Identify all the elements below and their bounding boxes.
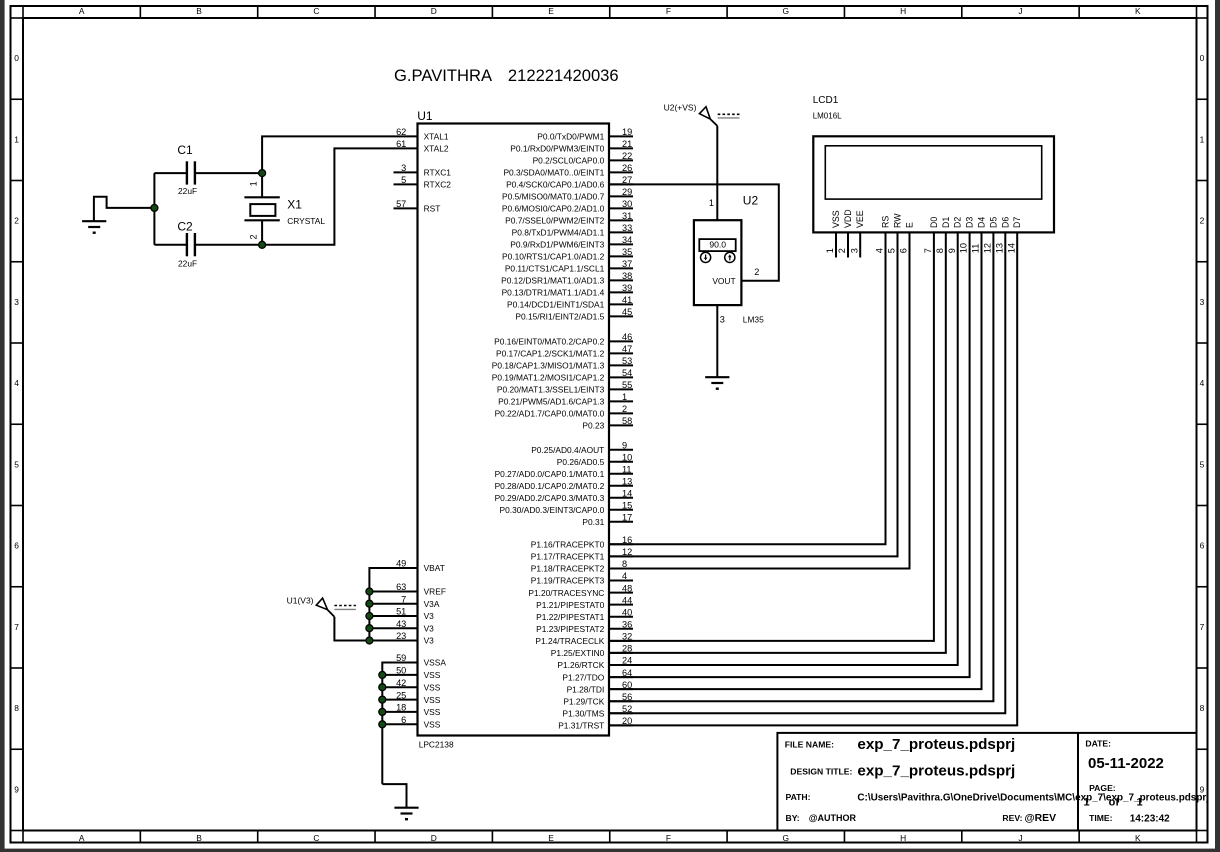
pin P0.8/TxD1/PWM4/AD1.1 (33) of U1 <box>512 223 633 238</box>
pin P0.15/RI1/EINT2/AD1.5 (45) of U1 <box>515 307 633 322</box>
svg-text:K: K <box>1135 833 1141 843</box>
svg-text:1: 1 <box>825 248 835 253</box>
svg-text:CRYSTAL: CRYSTAL <box>287 216 325 226</box>
pin P0.1/RxD0/PWM3/EINT0 (21) of U1 <box>510 139 633 154</box>
pin D5 (12) of LCD1 <box>983 217 999 254</box>
svg-text:P0.25/AD0.4/AOUT: P0.25/AD0.4/AOUT <box>531 445 604 455</box>
pin RW (5) of LCD1 <box>887 213 903 253</box>
pin number 1 of X1 <box>248 181 258 186</box>
svg-text:3: 3 <box>849 248 859 253</box>
wire XTAL1 net (U1 pin 62 to crystal pin 1) <box>262 136 417 173</box>
svg-text:9: 9 <box>14 784 19 794</box>
label LPC2138 part value <box>419 739 454 749</box>
chip LCD1 LM016L body <box>813 136 1054 232</box>
label U1 reference designator <box>417 109 433 123</box>
svg-text:10: 10 <box>959 243 969 253</box>
wire U1 P1.27 (pin 64) to LCD1 D3 <box>609 232 970 677</box>
svg-text:34: 34 <box>622 235 632 245</box>
svg-text:P0.26/AD0.5: P0.26/AD0.5 <box>557 457 605 467</box>
label LM016L part value <box>813 112 842 121</box>
pin P0.19/MAT1.2/MOSI1/CAP1.2 (54) of U1 <box>492 368 633 383</box>
svg-text:P0.17/CAP1.2/SCK1/MAT1.2: P0.17/CAP1.2/SCK1/MAT1.2 <box>496 349 605 359</box>
pin P0.5/MISO0/MAT0.1/AD0.7 (29) of U1 <box>502 187 633 202</box>
capacitor C1 <box>187 161 195 184</box>
pin XTAL2 (61) of U1 <box>396 139 449 154</box>
pin D1 (8) of LCD1 <box>935 217 951 254</box>
svg-text:LM016L: LM016L <box>813 112 842 121</box>
wire U1 P1.25 (pin 28) to LCD1 D1 <box>609 232 946 653</box>
svg-text:@AUTHOR: @AUTHOR <box>809 813 857 823</box>
crystal X1 <box>244 173 279 245</box>
pin P0.4/SCK0/CAP0.1/AD0.6 (27) of U1 <box>506 175 633 190</box>
svg-text:U1(V3): U1(V3) <box>287 596 314 606</box>
wire left rail between C1 and C2 <box>153 173 155 245</box>
svg-text:D0: D0 <box>929 217 939 228</box>
svg-text:B: B <box>196 6 202 16</box>
wire VREF stub <box>369 591 417 593</box>
svg-text:VSS: VSS <box>424 695 441 705</box>
text heading G.PAVITHRA 212221420036 <box>394 66 619 85</box>
pin VSS (42) of U1 <box>396 678 441 693</box>
svg-text:40: 40 <box>622 607 632 617</box>
svg-text:C:\Users\Pavithra.G\OneDrive\D: C:\Users\Pavithra.G\OneDrive\Documents\M… <box>857 793 1209 804</box>
pin P1.20/TRACESYNC (48) of U1 <box>528 583 633 598</box>
svg-text:H: H <box>900 833 906 843</box>
junction VSS rail at y=724.3 <box>379 721 386 728</box>
svg-text:P1.20/TRACESYNC: P1.20/TRACESYNC <box>528 588 604 598</box>
svg-text:5: 5 <box>887 248 897 253</box>
net label dashes U1(V3) <box>334 606 356 610</box>
wire U1 P1.17 (pin 12) to LCD1 RW <box>609 232 898 556</box>
svg-text:53: 53 <box>622 356 632 366</box>
svg-text:57: 57 <box>396 199 406 209</box>
svg-text:C2: C2 <box>177 219 193 233</box>
junction V3 rail at y=640.5 <box>366 637 373 644</box>
svg-text:BY:: BY: <box>786 813 800 823</box>
svg-text:FILE NAME:: FILE NAME: <box>785 739 834 749</box>
pin P1.17/TRACEPKT1 (12) of U1 <box>531 547 633 562</box>
svg-text:E: E <box>548 6 554 16</box>
wire C2 left segment <box>154 244 187 246</box>
svg-text:38: 38 <box>622 271 632 281</box>
svg-text:P0.28/AD0.1/CAP0.2/MAT0.2: P0.28/AD0.1/CAP0.2/MAT0.2 <box>495 481 605 491</box>
label CRYSTAL part value <box>287 216 325 226</box>
wire U2 pin 3 (GND) <box>716 305 718 377</box>
svg-text:0: 0 <box>14 53 19 63</box>
svg-text:P1.30/TMS: P1.30/TMS <box>562 708 604 718</box>
pin RST (57) of U1 <box>394 199 441 214</box>
svg-text:REV:: REV: <box>1002 813 1022 823</box>
svg-text:P1.16/TRACEPKT0: P1.16/TRACEPKT0 <box>531 540 605 550</box>
svg-text:11: 11 <box>622 464 632 474</box>
svg-text:8: 8 <box>935 248 945 253</box>
wire to left ground <box>94 197 154 221</box>
junction V3 rail at y=628.2 <box>366 625 373 632</box>
svg-text:30: 30 <box>622 199 632 209</box>
svg-text:VSSA: VSSA <box>424 658 447 668</box>
svg-text:2: 2 <box>1200 216 1205 226</box>
wire VSSA to VSS rail <box>382 663 417 785</box>
svg-text:D7: D7 <box>1012 217 1022 228</box>
svg-text:P0.31: P0.31 <box>582 517 604 527</box>
svg-text:29: 29 <box>622 187 632 197</box>
svg-text:P0.2/SCL0/CAP0.0: P0.2/SCL0/CAP0.0 <box>533 156 605 166</box>
power flag U1(V3) <box>287 596 335 617</box>
svg-text:E: E <box>905 222 915 228</box>
wire VSS stub at y=699.6 <box>382 699 417 701</box>
LM35 decrease button <box>701 252 711 262</box>
junction VSS rail at y=711.9 <box>379 708 386 715</box>
pin VSS (1) of LCD1 <box>825 210 841 257</box>
pin P0.11/CTS1/CAP1.1/SCL1 (37) of U1 <box>505 259 633 274</box>
ground symbol (LM35) <box>705 377 729 389</box>
wire VSS rail to bottom ground <box>382 784 406 808</box>
svg-text:J: J <box>1018 6 1022 16</box>
pin RS (4) of LCD1 <box>875 216 891 254</box>
svg-text:7: 7 <box>14 622 19 632</box>
svg-text:P1.19/TRACEPKT3: P1.19/TRACEPKT3 <box>531 576 605 586</box>
label VOUT pin name <box>712 276 735 286</box>
junction XTAL2/C2/X1 node <box>259 241 266 248</box>
pin D3 (10) of LCD1 <box>959 217 975 254</box>
pin VSSA (59) of U1 <box>396 653 446 668</box>
pin P0.17/CAP1.2/SCK1/MAT1.2 (47) of U1 <box>496 344 633 359</box>
svg-text:26: 26 <box>622 163 632 173</box>
pin VSS (50) of U1 <box>396 666 441 681</box>
svg-text:P0.18/CAP1.3/MISO1/MAT1.3: P0.18/CAP1.3/MISO1/MAT1.3 <box>492 361 605 371</box>
svg-text:47: 47 <box>622 344 632 354</box>
pin P0.2/SCL0/CAP0.0 (22) of U1 <box>533 151 633 166</box>
svg-text:DESIGN TITLE:: DESIGN TITLE: <box>790 766 852 776</box>
svg-text:VSS: VSS <box>831 210 841 228</box>
svg-text:6: 6 <box>1200 541 1205 551</box>
wire VSS stub at y=711.9 <box>382 711 417 713</box>
junction C1/C2/ground node <box>151 204 158 211</box>
pin V3 (43) of U1 <box>396 619 434 634</box>
svg-text:P0.5/MISO0/MAT0.1/AD0.7: P0.5/MISO0/MAT0.1/AD0.7 <box>502 192 605 202</box>
svg-text:21: 21 <box>622 139 632 149</box>
pin V3 (51) of U1 <box>396 607 434 622</box>
svg-text:P0.20/MAT1.3/SSEL1/EINT3: P0.20/MAT1.3/SSEL1/EINT3 <box>497 385 605 395</box>
pin P0.26/AD0.5 (10) of U1 <box>557 452 633 467</box>
wire VSS stub at y=724.3 <box>382 723 417 725</box>
svg-text:LCD1: LCD1 <box>813 95 839 106</box>
svg-text:54: 54 <box>622 368 632 378</box>
pin D4 (11) of LCD1 <box>971 217 987 254</box>
svg-text:22: 22 <box>622 151 632 161</box>
value 22uF of C2 <box>178 259 197 269</box>
svg-text:D5: D5 <box>988 217 998 228</box>
svg-text:5: 5 <box>401 175 406 185</box>
wire C1 right segment <box>195 172 262 174</box>
pin P0.16/EINT0/MAT0.2/CAP0.2 (46) of U1 <box>494 332 633 347</box>
pin P0.14/DCD1/EINT1/SDA1 (41) of U1 <box>507 295 633 310</box>
svg-text:P0.15/RI1/EINT2/AD1.5: P0.15/RI1/EINT2/AD1.5 <box>515 312 604 322</box>
svg-text:31: 31 <box>622 211 632 221</box>
svg-text:19: 19 <box>622 127 632 137</box>
svg-text:P0.14/DCD1/EINT1/SDA1: P0.14/DCD1/EINT1/SDA1 <box>507 300 605 310</box>
pin number 3 of U2 <box>720 314 725 324</box>
svg-text:P0.10/RTS1/CAP1.0/AD1.2: P0.10/RTS1/CAP1.0/AD1.2 <box>502 252 605 262</box>
svg-text:33: 33 <box>622 223 632 233</box>
svg-text:6: 6 <box>899 248 909 253</box>
svg-text:14: 14 <box>622 488 632 498</box>
svg-text:P0.30/AD0.3/EINT3/CAP0.0: P0.30/AD0.3/EINT3/CAP0.0 <box>500 505 605 515</box>
svg-text:D: D <box>431 6 437 16</box>
svg-text:V3: V3 <box>424 611 435 621</box>
svg-text:D: D <box>431 833 437 843</box>
wire U1 P1.18 (pin 8) to LCD1 E <box>609 232 910 568</box>
svg-text:P1.31/TRST: P1.31/TRST <box>558 721 604 731</box>
pin D7 (14) of LCD1 <box>1006 217 1022 254</box>
wire U1 P1.29 (pin 56) to LCD1 D5 <box>609 232 993 701</box>
svg-text:44: 44 <box>622 595 632 605</box>
wire U1 P1.16 (pin 16) to LCD1 RS <box>609 232 886 544</box>
svg-text:P0.9/RxD1/PWM6/EINT3: P0.9/RxD1/PWM6/EINT3 <box>510 240 604 250</box>
svg-text:P0.22/AD1.7/CAP0.0/MAT0.0: P0.22/AD1.7/CAP0.0/MAT0.0 <box>495 409 605 419</box>
label X1 reference <box>287 198 302 212</box>
svg-text:1: 1 <box>709 198 714 208</box>
svg-text:VSS: VSS <box>424 720 441 730</box>
wire U1(V3) power to V3 rail <box>334 617 369 641</box>
svg-text:9: 9 <box>622 440 627 450</box>
pin VSS (18) of U1 <box>396 703 441 718</box>
pin VEE (3) of LCD1 <box>849 210 865 257</box>
svg-text:E: E <box>548 833 554 843</box>
svg-text:6: 6 <box>14 541 19 551</box>
svg-text:P1.28/TDI: P1.28/TDI <box>567 684 605 694</box>
wire VSS stub at y=687.2 <box>382 686 417 688</box>
svg-text:4: 4 <box>875 248 885 253</box>
svg-text:A: A <box>79 6 85 16</box>
svg-text:P0.6/MOSI0/CAP0.2/AD1.0: P0.6/MOSI0/CAP0.2/AD1.0 <box>502 204 605 214</box>
svg-text:22uF: 22uF <box>178 259 197 269</box>
svg-text:55: 55 <box>622 380 632 390</box>
junction V3 rail at y=603.7 <box>366 600 373 607</box>
svg-text:P0.3/SDA0/MAT0..0/EINT1: P0.3/SDA0/MAT0..0/EINT1 <box>503 168 604 178</box>
svg-text:2: 2 <box>622 404 627 414</box>
power flag U2(+VS) <box>664 103 718 126</box>
svg-text:212221420036: 212221420036 <box>508 66 619 85</box>
svg-text:U2(+VS): U2(+VS) <box>664 103 697 113</box>
svg-text:3: 3 <box>14 297 19 307</box>
svg-text:90.0: 90.0 <box>709 240 726 250</box>
wire VBAT to V3 rail <box>369 568 417 641</box>
pin VBAT (49) of U1 <box>396 559 445 574</box>
svg-text:H: H <box>900 6 906 16</box>
svg-text:XTAL2: XTAL2 <box>424 144 449 154</box>
svg-text:J: J <box>1018 833 1022 843</box>
wire V3 pin23 stub <box>369 640 417 642</box>
svg-text:B: B <box>196 833 202 843</box>
svg-text:46: 46 <box>622 332 632 342</box>
ground symbol (crystal capacitors) <box>82 221 106 233</box>
pin P0.22/AD1.7/CAP0.0/MAT0.0 (2) of U1 <box>495 404 633 419</box>
svg-text:3: 3 <box>720 314 725 324</box>
svg-text:4: 4 <box>622 571 627 581</box>
svg-text:14:23:42: 14:23:42 <box>1130 814 1170 825</box>
pin P0.23 (58) of U1 <box>582 416 633 431</box>
wire P0.4/AD0.6 (U1 pin 27) to LM35 VOUT routing <box>609 184 779 280</box>
svg-text:P0.21/PWM5/AD1.6/CAP1.3: P0.21/PWM5/AD1.6/CAP1.3 <box>498 397 604 407</box>
pin P1.28/TDI (60) of U1 <box>567 680 633 695</box>
pin P1.22/PIPESTAT1 (40) of U1 <box>536 607 633 622</box>
pin P1.19/TRACEPKT3 (4) of U1 <box>531 571 633 586</box>
svg-text:F: F <box>666 6 671 16</box>
pin number 2 of X1 <box>249 234 259 239</box>
pin P0.20/MAT1.3/SSEL1/EINT3 (55) of U1 <box>497 380 633 395</box>
svg-text:P1.17/TRACEPKT1: P1.17/TRACEPKT1 <box>531 552 605 562</box>
svg-text:15: 15 <box>622 500 632 510</box>
pin P0.12/DSR1/MAT1.0/AD1.3 (38) of U1 <box>501 271 633 286</box>
pin number 2 of U2 <box>754 267 759 277</box>
svg-text:8: 8 <box>14 703 19 713</box>
svg-text:G.PAVITHRA: G.PAVITHRA <box>394 66 493 85</box>
svg-text:1: 1 <box>622 392 627 402</box>
svg-text:D1: D1 <box>941 217 951 228</box>
ground symbol (U1 VSS) <box>394 808 418 820</box>
pin P1.31/TRST (20) of U1 <box>558 716 633 731</box>
pin D2 (9) of LCD1 <box>947 217 963 254</box>
pin P0.13/DTR1/MAT1.1/AD1.4 (39) of U1 <box>502 283 633 298</box>
svg-text:2: 2 <box>249 234 259 239</box>
pin P0.27/AD0.0/CAP0.1/MAT0.1 (11) of U1 <box>495 464 633 479</box>
svg-text:14: 14 <box>1006 243 1016 253</box>
svg-text:P1.25/EXTIN0: P1.25/EXTIN0 <box>551 648 605 658</box>
svg-text:9: 9 <box>947 248 957 253</box>
wire C2 right segment <box>195 244 262 246</box>
svg-text:K: K <box>1135 6 1141 16</box>
chip U2 LM35 body <box>694 220 742 305</box>
svg-text:VSS: VSS <box>424 670 441 680</box>
svg-text:RTXC1: RTXC1 <box>424 168 452 178</box>
svg-text:36: 36 <box>622 619 632 629</box>
svg-text:2: 2 <box>14 216 19 226</box>
svg-text:P0.29/AD0.2/CAP0.3/MAT0.3: P0.29/AD0.2/CAP0.3/MAT0.3 <box>495 493 605 503</box>
pin VDD (2) of LCD1 <box>837 209 853 257</box>
pin P0.10/RTS1/CAP1.0/AD1.2 (35) of U1 <box>502 247 633 262</box>
junction XTAL1/C1/X1 node <box>259 170 266 177</box>
svg-text:VDD: VDD <box>843 209 853 228</box>
pin D0 (7) of LCD1 <box>923 217 939 254</box>
svg-text:P1.24/TRACECLK: P1.24/TRACECLK <box>535 636 604 646</box>
label C2 reference <box>177 219 193 233</box>
svg-text:exp_7_proteus.pdsprj: exp_7_proteus.pdsprj <box>857 763 1015 780</box>
svg-text:P0.16/EINT0/MAT0.2/CAP0.2: P0.16/EINT0/MAT0.2/CAP0.2 <box>494 337 605 347</box>
svg-text:11: 11 <box>971 244 981 254</box>
svg-text:XTAL1: XTAL1 <box>424 132 449 142</box>
svg-text:PAGE:: PAGE: <box>1089 783 1116 793</box>
svg-text:48: 48 <box>622 583 632 593</box>
wire U1 P1.24 (pin 32) to LCD1 D0 <box>609 232 934 640</box>
chip U1 LPC2138 body <box>418 124 610 736</box>
svg-text:P0.0/TxD0/PWM1: P0.0/TxD0/PWM1 <box>537 132 604 142</box>
svg-text:RS: RS <box>881 216 891 228</box>
pin P1.30/TMS (52) of U1 <box>562 704 633 719</box>
pin P1.23/PIPESTAT2 (36) of U1 <box>536 619 633 634</box>
pin P1.29/TCK (56) of U1 <box>563 692 633 707</box>
svg-text:VOUT: VOUT <box>712 276 735 286</box>
net label dashes U2(+VS) <box>718 114 740 118</box>
pin V3A (7) of U1 <box>401 594 440 609</box>
svg-text:P0.27/AD0.0/CAP0.1/MAT0.1: P0.27/AD0.0/CAP0.1/MAT0.1 <box>495 469 605 479</box>
wire XTAL2 net (U1 pin 61 to crystal pin 2) <box>262 148 417 244</box>
svg-text:X1: X1 <box>287 198 302 212</box>
svg-text:3: 3 <box>401 163 406 173</box>
svg-text:DATE:: DATE: <box>1085 738 1111 748</box>
pin P0.7/SSEL0/PWM2/EINT2 (31) of U1 <box>505 211 633 226</box>
svg-text:P1.22/PIPESTAT1: P1.22/PIPESTAT1 <box>536 612 604 622</box>
svg-text:C: C <box>313 833 319 843</box>
svg-text:V3A: V3A <box>424 599 440 609</box>
svg-text:1: 1 <box>248 181 258 186</box>
svg-text:F: F <box>666 833 671 843</box>
junction V3 rail at y=616.0 <box>366 613 373 620</box>
pin P1.24/TRACECLK (32) of U1 <box>535 632 633 647</box>
svg-text:41: 41 <box>622 295 632 305</box>
svg-text:58: 58 <box>622 416 632 426</box>
pin P0.0/TxD0/PWM1 (19) of U1 <box>537 127 633 142</box>
svg-text:PATH:: PATH: <box>786 792 811 802</box>
pin P0.9/RxD1/PWM6/EINT3 (34) of U1 <box>510 235 633 250</box>
svg-text:VEE: VEE <box>855 210 865 228</box>
svg-text:U1: U1 <box>417 109 433 123</box>
LM35 increase button <box>725 252 735 262</box>
svg-text:VBAT: VBAT <box>424 563 445 573</box>
pin RTXC1 (3) of U1 <box>394 163 452 178</box>
svg-text:A: A <box>79 833 85 843</box>
label LCD1 reference <box>813 95 839 106</box>
svg-text:P1.21/PIPESTAT0: P1.21/PIPESTAT0 <box>536 600 604 610</box>
pin VSS (6) of U1 <box>401 715 441 730</box>
svg-text:5: 5 <box>14 459 19 469</box>
svg-text:G: G <box>783 833 790 843</box>
svg-text:4: 4 <box>14 378 19 388</box>
svg-text:3: 3 <box>1200 297 1205 307</box>
svg-text:10: 10 <box>622 452 632 462</box>
pin P0.3/SDA0/MAT0..0/EINT1 (26) of U1 <box>503 163 633 178</box>
svg-text:LPC2138: LPC2138 <box>419 739 454 749</box>
svg-text:P0.13/DTR1/MAT1.1/AD1.4: P0.13/DTR1/MAT1.1/AD1.4 <box>502 288 605 298</box>
svg-text:D2: D2 <box>953 217 963 228</box>
pin D6 (13) of LCD1 <box>994 217 1010 254</box>
svg-text:P1.26/RTCK: P1.26/RTCK <box>557 660 604 670</box>
svg-text:05-11-2022: 05-11-2022 <box>1088 755 1164 772</box>
svg-text:8: 8 <box>1200 703 1205 713</box>
pin P1.27/TDO (64) of U1 <box>562 668 633 683</box>
pin P0.28/AD0.1/CAP0.2/MAT0.2 (13) of U1 <box>495 476 633 491</box>
junction VSS rail at y=699.6 <box>379 696 386 703</box>
svg-text:1: 1 <box>14 134 19 144</box>
wire V3 pin43 stub <box>369 627 417 629</box>
svg-text:RW: RW <box>893 213 903 228</box>
wire V3A stub <box>369 603 417 605</box>
pin P1.26/RTCK (24) of U1 <box>557 656 633 671</box>
wire U1 P1.26 (pin 24) to LCD1 D2 <box>609 232 958 665</box>
svg-text:P0.7/SSEL0/PWM2/EINT2: P0.7/SSEL0/PWM2/EINT2 <box>505 216 604 226</box>
svg-text:RST: RST <box>424 204 441 214</box>
svg-text:P0.4/SCK0/CAP0.1/AD0.6: P0.4/SCK0/CAP0.1/AD0.6 <box>506 180 605 190</box>
svg-text:2: 2 <box>754 267 759 277</box>
svg-text:P0.1/RxD0/PWM3/EINT0: P0.1/RxD0/PWM3/EINT0 <box>510 144 604 154</box>
pin VREF (63) of U1 <box>396 582 446 597</box>
pin P1.21/PIPESTAT0 (44) of U1 <box>536 595 633 610</box>
svg-text:C1: C1 <box>177 143 193 157</box>
svg-text:U2: U2 <box>743 193 759 207</box>
pin P0.30/AD0.3/EINT3/CAP0.0 (15) of U1 <box>500 500 633 515</box>
title block <box>777 733 1209 831</box>
wire C1 left segment <box>154 172 187 174</box>
